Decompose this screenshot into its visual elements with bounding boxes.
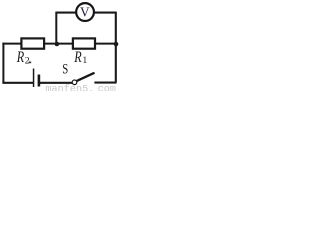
battery cell long thin plate xyxy=(33,69,35,88)
svg-text:2: 2 xyxy=(25,55,30,66)
battery cell short thick plate xyxy=(38,75,41,87)
svg-text:V: V xyxy=(80,4,90,19)
ink speck artifact below label R2 xyxy=(29,62,32,64)
switch S contact circle xyxy=(72,80,77,85)
svg-text:S: S xyxy=(62,61,68,77)
svg-text:R: R xyxy=(16,48,24,66)
label S xyxy=(62,61,68,77)
resistor R1 box xyxy=(73,38,95,48)
resistor R2 box xyxy=(21,38,44,48)
label R2 xyxy=(16,48,24,66)
wire right rail vertical xyxy=(115,12,117,83)
wire left rail vertical xyxy=(2,43,4,83)
wire top run from node above R2-R1 junction to voltmeter to right rail xyxy=(56,12,116,14)
svg-text:com: com xyxy=(98,84,116,91)
node junction dot between R2 and R1 xyxy=(55,42,60,47)
switch S lever open xyxy=(77,73,93,81)
svg-text:1: 1 xyxy=(82,55,87,66)
voltmeter circle xyxy=(76,3,94,21)
wire bottom segment battery to switch xyxy=(40,82,72,84)
wire bottom right segment switch to right rail xyxy=(94,82,116,84)
label R1 xyxy=(73,48,81,66)
svg-text:manfen5.: manfen5. xyxy=(45,83,94,91)
node junction dot on right rail xyxy=(114,42,119,47)
wire middle row horizontal through R2 and R1 xyxy=(2,43,115,45)
wire bottom left segment to battery xyxy=(2,82,33,84)
svg-text:R: R xyxy=(73,48,81,66)
wire voltmeter branch vertical drop xyxy=(55,12,57,44)
